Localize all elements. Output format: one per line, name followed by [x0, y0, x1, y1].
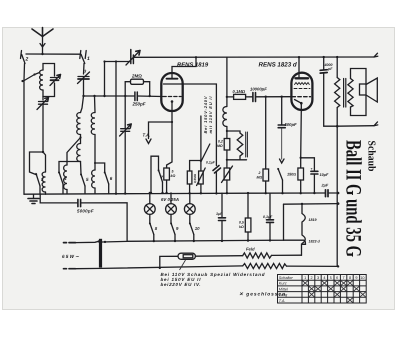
capacitor 2uF series [326, 190, 329, 197]
switch 8 [150, 223, 154, 235]
svg-text:T.A.: T.A. [279, 299, 286, 303]
svg-text:4: 4 [63, 176, 67, 181]
svg-text:0,1MΩ: 0,1MΩ [233, 89, 246, 94]
screen grid zigzag U2 [295, 83, 310, 85]
svg-text:7: 7 [343, 276, 345, 280]
switch 6 [95, 163, 105, 172]
svg-text:4: 4 [323, 276, 325, 280]
wire grid to tube1 [137, 95, 162, 98]
node antenna junction [41, 53, 43, 55]
svg-text:mit 110V EU II: mit 110V EU II [208, 96, 213, 134]
grid dashes U1 [163, 96, 181, 98]
wire pointer to fuse [180, 260, 186, 270]
resistor 0.1MOhm [227, 96, 234, 98]
lamp La3 [189, 193, 191, 203]
capacitor 1uF [221, 193, 223, 217]
capacitor 500pF [281, 97, 283, 125]
wire sw1 down [83, 64, 86, 75]
svg-text:Feld: Feld [246, 247, 255, 252]
potentiometer box C [200, 116, 202, 161]
svg-text:bei220V EU IV.: bei220V EU IV. [161, 282, 201, 287]
wire RF coil feed [94, 96, 97, 113]
coil L4 [64, 165, 67, 190]
wire mains top [76, 241, 99, 242]
wire line B [284, 203, 339, 206]
svg-text:pF: pF [327, 67, 333, 71]
svg-text:2μF: 2μF [321, 184, 329, 188]
resistor zigzag branch [227, 131, 240, 133]
wire speaker bottom line [337, 125, 374, 128]
switch TA2 [278, 169, 283, 181]
wire grid line [84, 95, 135, 97]
wire mains bottom [76, 266, 243, 269]
wire L3 bottom to switch 4 [59, 162, 81, 173]
svg-text:3: 3 [317, 276, 319, 280]
tube U2 RENS 1823d [291, 73, 312, 110]
svg-text:T.A.: T.A. [143, 133, 151, 138]
wire down to node [42, 104, 44, 152]
anode U1 [164, 83, 182, 85]
switch 3 [36, 174, 40, 187]
svg-text:10μF: 10μF [320, 173, 330, 177]
svg-text:1μF: 1μF [216, 212, 223, 216]
wire node to switch 3 [30, 152, 44, 175]
svg-text:Lang: Lang [279, 293, 288, 297]
grid dashes U2 [294, 88, 310, 90]
capacitor 4000pF [320, 70, 327, 73]
oscillator coil L3 lower [77, 144, 81, 162]
svg-text:RENS 1819: RENS 1819 [177, 62, 209, 69]
capacitor 10uF [311, 171, 318, 174]
RF coil L5 upper [91, 113, 95, 135]
svg-text:0,1μF: 0,1μF [263, 215, 273, 219]
wire to tube2 grid [256, 96, 292, 98]
terminal hook bottom [374, 122, 378, 126]
mains plug pins [64, 242, 76, 244]
wire to fuse [160, 256, 178, 268]
wire coil feed [81, 96, 84, 113]
resistor 0.2MOhm [224, 139, 230, 151]
svg-text:MΩ: MΩ [257, 176, 263, 180]
resistor box B [190, 161, 201, 172]
coil L2 [42, 152, 45, 194]
terminal hook top [374, 53, 378, 57]
svg-text:250pF: 250pF [132, 102, 146, 107]
trimmer capacitor C-sw1 [78, 72, 90, 84]
pin top cap U1 [171, 73, 173, 79]
cathode U1 [171, 100, 174, 103]
capacitor 10000pF [253, 93, 256, 102]
variable capacitor C2 [120, 124, 132, 136]
wire lamp top bus [150, 192, 152, 194]
capacitor D diagonal [202, 144, 221, 173]
svg-text:kΩ: kΩ [239, 225, 244, 229]
trimmer capacitor on L1 loop [50, 75, 61, 86]
svg-text:2: 2 [258, 171, 261, 175]
capacitor 5000pF line [40, 194, 78, 203]
mains switch bar [99, 239, 102, 268]
svg-text:0,5MΩ: 0,5MΩ [193, 173, 197, 183]
wire T.A. branch [149, 122, 173, 139]
resistor 2MOhm grid leak [131, 79, 144, 84]
wire 4000pF drop [323, 57, 325, 70]
capacitor 250pF [135, 92, 137, 101]
RF coil L5 lower [92, 170, 95, 188]
terminal T.A. arrow [146, 139, 151, 144]
coil choke L6 [223, 107, 227, 127]
fuse Si [178, 253, 195, 259]
wire sw2 arm to coil tap [23, 75, 35, 82]
wire trimmer to grid node [83, 79, 85, 96]
antenna coil L1 [35, 64, 55, 97]
wire lamp bottom bus [127, 204, 283, 241]
capacitor plate bars [245, 132, 247, 157]
table X marks [303, 281, 366, 303]
switch table [278, 275, 367, 304]
svg-text:150Ω: 150Ω [287, 173, 296, 177]
wire cathode branch right [301, 158, 315, 171]
svg-text:0,2: 0,2 [218, 140, 223, 144]
svg-text:5: 5 [330, 276, 332, 280]
switch 5 [80, 162, 83, 175]
cathode U2 [295, 100, 302, 104]
svg-text:kΩ: kΩ [171, 174, 176, 178]
svg-text:2MΩ: 2MΩ [131, 74, 142, 79]
transformer T1 primary [336, 57, 338, 77]
svg-text:Schalter: Schalter [279, 276, 294, 280]
wire vertical to bus [115, 62, 117, 194]
svg-text:1: 1 [87, 56, 90, 62]
svg-text:1823 d: 1823 d [309, 240, 321, 244]
switch 2 [21, 51, 26, 64]
wire anode out [181, 84, 216, 166]
svg-text:6V 0,25A: 6V 0,25A [161, 197, 179, 202]
svg-text:5000pF: 5000pF [77, 209, 94, 214]
wire tap diagonal [67, 138, 81, 166]
wire switch2 down [23, 64, 26, 195]
dropper resistor zigzag [243, 263, 287, 268]
svg-text:2: 2 [311, 276, 313, 280]
svg-text:8: 8 [349, 276, 351, 280]
svg-text:0,1μF: 0,1μF [206, 161, 216, 165]
pin anode U2 [298, 57, 300, 78]
svg-text:Mittel: Mittel [279, 287, 288, 291]
svg-text:Ball II G und 35 G: Ball II G und 35 G [342, 140, 367, 257]
svg-text:10000pF: 10000pF [250, 87, 267, 92]
wire screen feed vertical [226, 57, 228, 106]
svg-text:6: 6 [336, 276, 338, 280]
resistor 2MOhm-2 [265, 97, 267, 169]
lamp La2 [170, 193, 172, 204]
switch 7 [151, 156, 159, 193]
wire main ground bus [24, 193, 325, 194]
svg-text:9: 9 [355, 276, 357, 280]
svg-text:+: + [311, 167, 313, 171]
potentiometer E [226, 160, 228, 168]
antenna [32, 28, 53, 55]
transformer secondary [348, 79, 353, 108]
speaker LS [360, 84, 367, 95]
svg-text:10: 10 [360, 276, 364, 280]
variable capacitor C-ant [37, 98, 49, 110]
svg-text:MΩ: MΩ [217, 144, 223, 148]
svg-text:1: 1 [304, 276, 306, 280]
svg-text:1819: 1819 [309, 218, 317, 222]
switch 1 [80, 51, 86, 64]
wire C2 vertical [124, 82, 126, 194]
wire gang feed line [105, 61, 131, 63]
switch 4 [59, 172, 63, 184]
wire top bus right [133, 56, 374, 58]
wire grid cap drop [172, 57, 196, 73]
wire top bus left [26, 53, 80, 55]
wire L1 down [42, 97, 44, 101]
capacitor 0.1uF [269, 193, 271, 219]
svg-text:RENS 1823 d: RENS 1823 d [259, 62, 297, 69]
ground [28, 194, 39, 203]
tube U1 RENS 1819 [161, 73, 182, 111]
wire 500pF down with arrow [281, 128, 283, 160]
wire HT top feed [104, 62, 106, 97]
switch 9 [171, 223, 175, 235]
oscillator coil L3 upper [77, 113, 81, 135]
transformer core [343, 79, 345, 108]
svg-text:0,5: 0,5 [239, 221, 244, 225]
resistor 0.5kOhm [247, 193, 249, 218]
svg-text:Kurz: Kurz [279, 282, 287, 286]
switch 10 [190, 223, 194, 235]
tuning capacitor C1 [126, 50, 140, 66]
heater dropper with taps [302, 204, 305, 244]
svg-text:2: 2 [25, 57, 29, 63]
resistor R-k1 box [164, 168, 170, 180]
resistor 150Ohm [300, 158, 302, 168]
svg-text:500pF: 500pF [285, 122, 298, 127]
svg-text:10: 10 [195, 226, 200, 231]
